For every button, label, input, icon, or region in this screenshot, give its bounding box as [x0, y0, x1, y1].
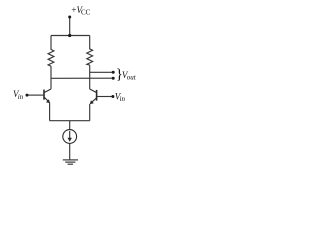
wire right collector vertical	[89, 65, 91, 89]
resistor RC1 zigzag	[48, 36, 54, 67]
wire left base	[28, 94, 44, 96]
wire top rail	[51, 35, 90, 37]
node vout bottom terminal	[112, 77, 115, 80]
wire right base	[97, 96, 112, 98]
node vout top terminal	[112, 71, 115, 74]
wire VCC stem	[69, 17, 71, 35]
wire left collector vertical	[50, 66, 52, 89]
wire left emitter vertical	[49, 103, 51, 121]
ground	[63, 160, 78, 164]
svg-text:Vin: Vin	[13, 89, 24, 101]
transistor Q2	[90, 89, 97, 104]
transistor Q1	[44, 89, 51, 103]
node vin left terminal	[26, 94, 29, 97]
wire vout top	[90, 71, 113, 73]
wire below current source	[69, 143, 71, 159]
svg-text:+VCC: +VCC	[71, 5, 90, 17]
wire right emitter vertical	[89, 104, 91, 121]
node VCC terminal	[68, 16, 71, 19]
node vin right terminal	[111, 95, 114, 98]
wire bottom emitter rail	[50, 120, 90, 122]
svg-text:Vin: Vin	[115, 92, 126, 103]
current source I	[63, 130, 77, 144]
wire tail stem	[69, 121, 71, 130]
node rail junction	[68, 34, 71, 37]
svg-text:Vout: Vout	[122, 70, 137, 82]
resistor RC2 zigzag	[87, 36, 93, 66]
wire vout bottom	[51, 77, 112, 79]
